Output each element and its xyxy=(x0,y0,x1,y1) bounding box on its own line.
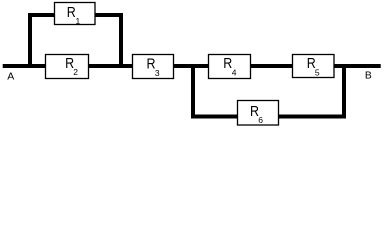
svg-text:B: B xyxy=(365,71,372,82)
svg-text:1: 1 xyxy=(76,16,81,26)
svg-text:6: 6 xyxy=(258,115,263,125)
svg-text:A: A xyxy=(7,70,14,82)
svg-text:2: 2 xyxy=(73,67,78,77)
svg-text:5: 5 xyxy=(315,67,320,77)
svg-text:3: 3 xyxy=(155,68,160,78)
svg-text:R: R xyxy=(67,4,76,21)
svg-text:4: 4 xyxy=(232,67,237,77)
